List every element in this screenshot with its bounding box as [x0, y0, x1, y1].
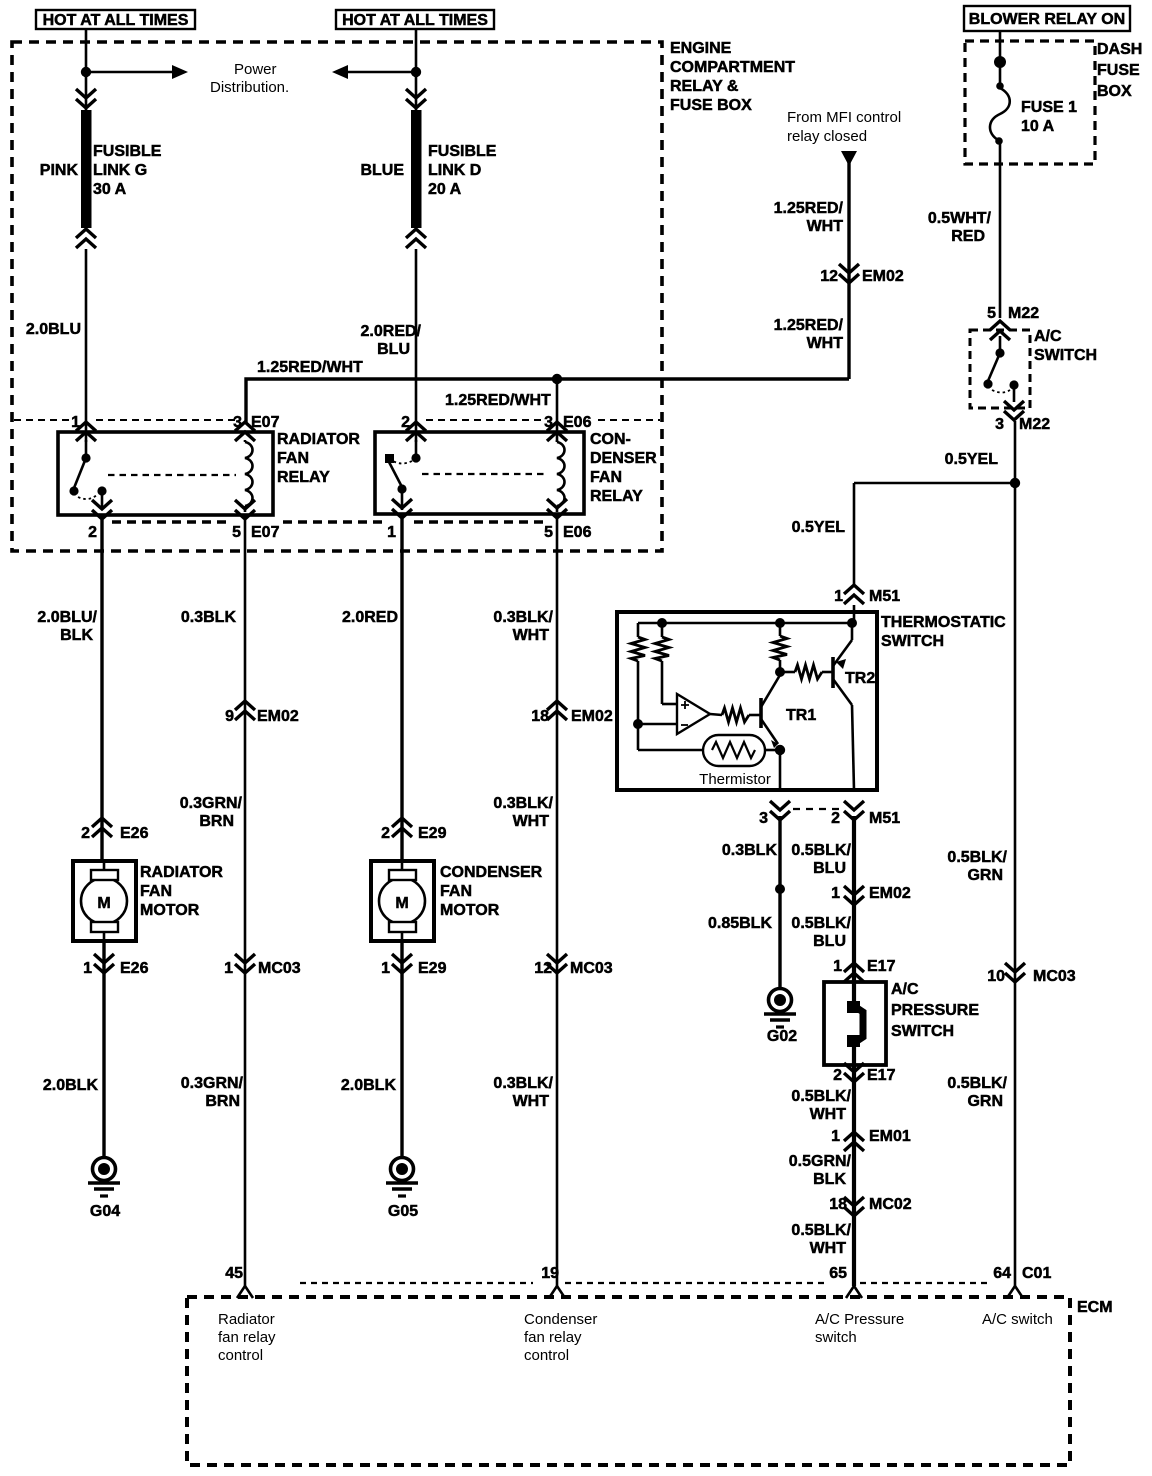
svg-text:BOX: BOX — [1097, 83, 1132, 100]
svg-text:E06: E06 — [563, 524, 592, 541]
svg-text:TR1: TR1 — [786, 707, 816, 724]
op-amp U1 — [677, 694, 710, 734]
svg-text:switch: switch — [815, 1329, 857, 1346]
connector 2 E29 — [381, 818, 446, 842]
wire pin1 into box — [853, 605, 856, 623]
svg-text:MC03: MC03 — [1033, 968, 1076, 985]
wire power distribution arrow left — [332, 65, 416, 79]
svg-text:MC02: MC02 — [869, 1196, 912, 1213]
svg-text:BLU: BLU — [377, 341, 410, 358]
svg-text:MC03: MC03 — [258, 960, 301, 977]
svg-text:Radiator: Radiator — [218, 1311, 275, 1328]
node HOT AT ALL TIMES (right) — [336, 10, 494, 29]
svg-text:PRESSURE: PRESSURE — [891, 1002, 979, 1019]
relay R1 switch — [69, 440, 106, 510]
svg-text:2.0RED: 2.0RED — [342, 609, 398, 626]
svg-text:0.5WHT/: 0.5WHT/ — [928, 210, 992, 227]
connector 12 MC03 — [534, 954, 613, 977]
svg-text:G04: G04 — [90, 1203, 120, 1220]
svg-text:WHT: WHT — [810, 1240, 847, 1257]
svg-text:RELAY &: RELAY & — [670, 78, 739, 95]
svg-text:RELAY: RELAY — [590, 488, 643, 505]
svg-text:1: 1 — [831, 1128, 840, 1145]
connector E07 bottom dashed — [112, 520, 386, 523]
connector 1 EM01 — [831, 1128, 911, 1151]
svg-text:5: 5 — [544, 524, 553, 541]
svg-text:WHT: WHT — [807, 335, 844, 352]
motor M2 condenser fan motor — [371, 861, 434, 941]
connector 1 MC03 — [224, 954, 301, 977]
svg-text:M22: M22 — [1008, 305, 1039, 322]
svg-text:DASH: DASH — [1097, 41, 1142, 58]
connector 2 E17 — [833, 1063, 895, 1084]
svg-text:18: 18 — [829, 1196, 847, 1213]
connector 1 E26 — [83, 954, 148, 977]
svg-text:0.5BLK/: 0.5BLK/ — [791, 1222, 851, 1239]
svg-text:RADIATOR: RADIATOR — [277, 431, 360, 448]
svg-text:RADIATOR: RADIATOR — [140, 864, 223, 881]
svg-text:fan relay: fan relay — [218, 1329, 276, 1346]
svg-text:LINK D: LINK D — [428, 162, 481, 179]
connector 3 M22 — [995, 401, 1050, 433]
svg-text:1.25RED/: 1.25RED/ — [774, 200, 844, 217]
svg-text:BLU: BLU — [813, 860, 846, 877]
connector 18 MC02 — [829, 1196, 912, 1216]
svg-text:45: 45 — [225, 1265, 243, 1282]
svg-text:5: 5 — [232, 524, 241, 541]
svg-text:G05: G05 — [388, 1203, 418, 1220]
thermistor RT — [637, 724, 640, 750]
relay R2 box — [375, 432, 584, 514]
svg-text:9: 9 — [225, 708, 234, 725]
connector E06 top dashed — [426, 419, 660, 421]
node junction — [81, 67, 91, 77]
svg-text:SWITCH: SWITCH — [1034, 347, 1097, 364]
svg-text:A/C Pressure: A/C Pressure — [815, 1311, 904, 1328]
svg-text:M: M — [97, 895, 110, 912]
svg-text:12: 12 — [534, 960, 552, 977]
svg-text:EM02: EM02 — [862, 268, 904, 285]
wire 0.5BLK/BLU — [852, 816, 856, 1008]
wire 2.0BLU/BLK — [100, 515, 103, 861]
svg-text:E26: E26 — [120, 825, 149, 842]
connector 1 M51 — [834, 585, 900, 605]
svg-text:control: control — [524, 1347, 569, 1364]
svg-text:2: 2 — [831, 810, 840, 827]
svg-text:64: 64 — [993, 1265, 1011, 1282]
connector 9 EM02 — [225, 701, 299, 725]
node junction — [1010, 478, 1020, 488]
connector 1 E17 — [833, 958, 895, 982]
resistor RB — [661, 623, 664, 637]
relay R1 actuation dashed link — [108, 474, 236, 476]
svg-text:2: 2 — [381, 825, 390, 842]
svg-text:A/C switch: A/C switch — [982, 1311, 1053, 1328]
engine compartment relay & fuse box (dashed) — [12, 42, 662, 551]
svg-text:E26: E26 — [120, 960, 149, 977]
svg-text:1.25RED/WHT: 1.25RED/WHT — [257, 359, 363, 376]
svg-text:ECM: ECM — [1077, 1299, 1113, 1316]
svg-text:Distribution.: Distribution. — [210, 79, 289, 96]
svg-text:FAN: FAN — [440, 883, 472, 900]
svg-text:WHT: WHT — [513, 813, 550, 830]
svg-text:M51: M51 — [869, 588, 900, 605]
wire 0.3BLK/WHT — [556, 514, 559, 1286]
svg-text:fan relay: fan relay — [524, 1329, 582, 1346]
svg-text:EM01: EM01 — [869, 1128, 911, 1145]
wire power distribution arrow right — [86, 65, 188, 79]
svg-text:1: 1 — [387, 524, 396, 541]
svg-text:E29: E29 — [418, 960, 447, 977]
svg-text:CON-: CON- — [590, 431, 631, 448]
connector M51 pins 3 and 2 — [759, 801, 900, 827]
svg-text:M: M — [395, 895, 408, 912]
svg-text:FUSE BOX: FUSE BOX — [670, 97, 752, 114]
svg-text:BLU: BLU — [813, 933, 846, 950]
svg-text:2.0RED/: 2.0RED/ — [361, 323, 422, 340]
motor M1 radiator fan motor — [73, 861, 136, 941]
svg-text:BRN: BRN — [199, 813, 234, 830]
svg-text:BLK: BLK — [60, 627, 93, 644]
svg-text:A/C: A/C — [891, 981, 919, 998]
svg-text:COMPARTMENT: COMPARTMENT — [670, 59, 795, 76]
transistor TR1 — [759, 698, 763, 728]
svg-text:FAN: FAN — [277, 450, 309, 467]
svg-text:0.85BLK: 0.85BLK — [708, 915, 772, 932]
svg-text:20 A: 20 A — [428, 181, 462, 198]
svg-text:2: 2 — [833, 1067, 842, 1084]
svg-text:FAN: FAN — [140, 883, 172, 900]
svg-text:0.3BLK/: 0.3BLK/ — [493, 609, 553, 626]
svg-text:SWITCH: SWITCH — [881, 633, 944, 650]
node junction to condenser relay coil — [552, 374, 562, 384]
svg-text:control: control — [218, 1347, 263, 1364]
wire from blower relay — [999, 32, 1002, 88]
relay R2 switch — [385, 440, 421, 510]
svg-text:MOTOR: MOTOR — [440, 902, 500, 919]
svg-text:MC03: MC03 — [570, 960, 613, 977]
svg-text:RED: RED — [951, 228, 985, 245]
svg-text:1: 1 — [831, 885, 840, 902]
ECM box — [187, 1297, 1070, 1465]
svg-text:C01: C01 — [1022, 1265, 1051, 1282]
svg-text:WHT: WHT — [807, 218, 844, 235]
svg-text:BLK: BLK — [813, 1171, 846, 1188]
wire 0.5YEL down — [1014, 421, 1017, 483]
connector 18 EM02 — [531, 701, 613, 725]
resistor RD — [779, 623, 782, 636]
switch S1 inside — [983, 336, 1018, 402]
svg-text:1: 1 — [83, 960, 92, 977]
svg-text:3: 3 — [759, 810, 768, 827]
svg-text:relay closed: relay closed — [787, 128, 867, 145]
svg-text:0.5BLK/: 0.5BLK/ — [791, 842, 851, 859]
ground G05 — [386, 1158, 418, 1197]
wire 0.5YEL horizontal — [854, 482, 1015, 485]
svg-text:1.25RED/: 1.25RED/ — [774, 317, 844, 334]
svg-text:E06: E06 — [563, 414, 592, 431]
node splice — [775, 884, 785, 894]
svg-text:FUSIBLE: FUSIBLE — [428, 143, 497, 160]
svg-text:0.5YEL: 0.5YEL — [792, 519, 846, 536]
resistor RA — [637, 623, 640, 637]
connector chevrons on feed 1 — [76, 89, 96, 108]
svg-text:MOTOR: MOTOR — [140, 902, 200, 919]
svg-text:0.5YEL: 0.5YEL — [945, 451, 999, 468]
svg-text:SWITCH: SWITCH — [891, 1023, 954, 1040]
svg-text:5: 5 — [987, 305, 996, 322]
wire 2.0BLK — [400, 941, 403, 1157]
wire 2.0RED — [400, 514, 403, 861]
svg-text:HOT AT ALL TIMES: HOT AT ALL TIMES — [43, 12, 189, 29]
wire 0.3BLK / 0.3GRN/BRN — [244, 515, 247, 1286]
wire 2.0BLK — [102, 941, 105, 1157]
svg-text:65: 65 — [829, 1265, 847, 1282]
svg-text:BRN: BRN — [205, 1093, 240, 1110]
svg-text:2.0BLU: 2.0BLU — [26, 321, 81, 338]
wire 2.0BLU down to relay pin 1 — [85, 249, 88, 442]
svg-text:10 A: 10 A — [1021, 118, 1055, 135]
svg-text:FAN: FAN — [590, 469, 622, 486]
svg-text:FUSE 1: FUSE 1 — [1021, 99, 1077, 116]
svg-text:From MFI control: From MFI control — [787, 109, 901, 126]
pressure switch PS1 box — [824, 982, 886, 1065]
svg-text:1: 1 — [834, 588, 843, 605]
svg-text:0.3BLK/: 0.3BLK/ — [493, 795, 553, 812]
svg-text:1: 1 — [224, 960, 233, 977]
svg-text:BLUE: BLUE — [360, 162, 404, 179]
svg-text:2: 2 — [81, 825, 90, 842]
wire from HOT AT ALL TIMES left — [85, 30, 88, 112]
node HOT AT ALL TIMES (left) — [36, 10, 195, 29]
relay R2 coil — [557, 440, 565, 512]
connector C01 dashed line — [300, 1282, 992, 1284]
svg-text:LINK G: LINK G — [93, 162, 147, 179]
svg-text:FUSE: FUSE — [1097, 62, 1140, 79]
svg-text:3: 3 — [995, 416, 1004, 433]
resistor RC — [710, 714, 722, 715]
wire 0.3BLK — [778, 816, 781, 988]
connector E07 top dashed — [14, 419, 236, 421]
svg-text:EM02: EM02 — [571, 708, 613, 725]
svg-text:Thermistor: Thermistor — [699, 771, 771, 788]
fusible link G 30 A — [40, 110, 162, 248]
connector 10 MC03 — [987, 963, 1076, 985]
wire 0.5BLK/GRN — [1014, 483, 1017, 1286]
svg-text:GRN: GRN — [967, 1093, 1003, 1110]
svg-text:1.25RED/WHT: 1.25RED/WHT — [445, 392, 551, 409]
connector 5 M22 — [987, 305, 1039, 340]
svg-text:BLOWER RELAY ON: BLOWER RELAY ON — [969, 11, 1125, 28]
connector E06 bottom dashed — [414, 520, 543, 523]
svg-text:FUSIBLE: FUSIBLE — [93, 143, 162, 160]
transistor TR2 — [831, 657, 835, 688]
svg-text:0.5BLK/: 0.5BLK/ — [947, 1075, 1007, 1092]
node junction — [411, 67, 421, 77]
svg-text:WHT: WHT — [810, 1106, 847, 1123]
svg-text:WHT: WHT — [513, 627, 550, 644]
wire from HOT AT ALL TIMES right — [415, 30, 418, 112]
svg-text:0.3GRN/: 0.3GRN/ — [181, 1075, 244, 1092]
svg-text:2.0BLK: 2.0BLK — [43, 1077, 99, 1094]
svg-text:E17: E17 — [867, 1067, 896, 1084]
svg-text:0.5BLK/: 0.5BLK/ — [791, 1088, 851, 1105]
svg-text:WHT: WHT — [513, 1093, 550, 1110]
node — [633, 719, 643, 729]
svg-text:Power: Power — [234, 61, 277, 78]
relay R1 coil — [245, 440, 253, 512]
svg-text:A/C: A/C — [1034, 328, 1062, 345]
svg-text:DENSER: DENSER — [590, 450, 657, 467]
node BLOWER RELAY ON — [964, 6, 1130, 31]
connector 1 E29 — [381, 954, 446, 977]
wire top rail — [638, 622, 854, 625]
svg-text:10: 10 — [987, 968, 1005, 985]
svg-text:GRN: GRN — [967, 867, 1003, 884]
svg-text:E29: E29 — [418, 825, 447, 842]
wire 0.5BLK/WHT — [852, 1046, 856, 1286]
svg-text:TR2: TR2 — [845, 670, 875, 687]
svg-text:E07: E07 — [251, 524, 280, 541]
svg-text:M51: M51 — [869, 810, 900, 827]
svg-text:12: 12 — [820, 268, 838, 285]
svg-text:18: 18 — [531, 708, 549, 725]
svg-text:PINK: PINK — [40, 162, 79, 179]
ground G02 — [764, 989, 796, 1028]
svg-text:E17: E17 — [867, 958, 896, 975]
svg-text:HOT AT ALL TIMES: HOT AT ALL TIMES — [342, 12, 488, 29]
svg-text:EM02: EM02 — [257, 708, 299, 725]
svg-text:0.3BLK: 0.3BLK — [722, 842, 778, 859]
connector 12 EM02 — [820, 264, 904, 285]
svg-text:THERMOSTATIC: THERMOSTATIC — [881, 614, 1006, 631]
svg-text:30 A: 30 A — [93, 181, 127, 198]
svg-text:0.5GRN/: 0.5GRN/ — [789, 1153, 852, 1170]
svg-text:M22: M22 — [1019, 416, 1050, 433]
wire 1.25RED/WHT horizontal bus — [246, 379, 849, 424]
connector 1 EM02 — [831, 885, 911, 905]
wire 0.5WHT/RED — [999, 141, 1002, 318]
fuse F1 10A — [990, 88, 1010, 140]
svg-text:0.3GRN/: 0.3GRN/ — [180, 795, 243, 812]
svg-text:2.0BLU/: 2.0BLU/ — [37, 609, 97, 626]
svg-text:Condenser: Condenser — [524, 1311, 597, 1328]
svg-text:G02: G02 — [767, 1028, 797, 1045]
connector 2 E26 — [81, 818, 148, 842]
svg-text:2: 2 — [88, 524, 97, 541]
svg-text:2.0BLK: 2.0BLK — [341, 1077, 397, 1094]
svg-text:E07: E07 — [251, 414, 280, 431]
ground G04 — [88, 1158, 120, 1197]
wire from MFI control relay — [841, 151, 857, 166]
fusible link D 20 A — [360, 110, 496, 248]
svg-text:0.3BLK/: 0.3BLK/ — [493, 1075, 553, 1092]
relay R1 box — [58, 432, 273, 515]
svg-text:0.5BLK/: 0.5BLK/ — [947, 849, 1007, 866]
svg-text:RELAY: RELAY — [277, 469, 330, 486]
svg-text:0.5BLK/: 0.5BLK/ — [791, 915, 851, 932]
svg-text:EM02: EM02 — [869, 885, 911, 902]
svg-text:19: 19 — [541, 1265, 559, 1282]
wire 2.0RED/BLU down to condenser relay pin 2 — [415, 249, 418, 442]
resistor RE — [780, 671, 795, 674]
svg-text:ENGINE: ENGINE — [670, 40, 732, 57]
relay R2 actuation dashed link — [422, 473, 548, 475]
svg-text:0.3BLK: 0.3BLK — [181, 609, 237, 626]
svg-text:CONDENSER: CONDENSER — [440, 864, 543, 881]
svg-text:1: 1 — [381, 960, 390, 977]
svg-text:1: 1 — [833, 958, 842, 975]
